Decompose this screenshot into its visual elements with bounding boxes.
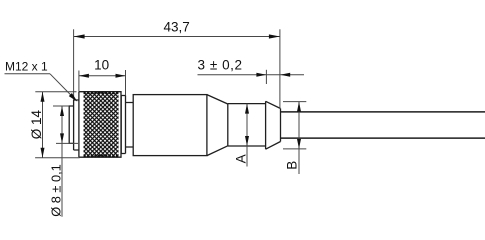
svg-text:B: B — [284, 161, 299, 170]
svg-text:43,7: 43,7 — [163, 20, 189, 35]
svg-text:10: 10 — [94, 58, 109, 73]
svg-text:3 ± 0,2: 3 ± 0,2 — [198, 58, 243, 73]
svg-text:Ø 8 ± 0,1: Ø 8 ± 0,1 — [48, 164, 63, 217]
svg-text:A: A — [233, 154, 248, 163]
svg-text:Ø 14: Ø 14 — [29, 109, 44, 139]
svg-text:M12 x 1: M12 x 1 — [5, 59, 48, 73]
